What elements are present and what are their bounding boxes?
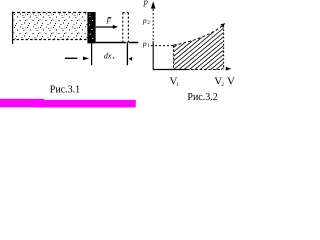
magenta highlight bar left: [0, 99, 44, 108]
svg-text:2: 2: [221, 82, 224, 88]
cylinder bottom dotted wall: [12, 39, 88, 41]
svg-text:p: p: [142, 16, 147, 25]
piston displaced position (dashed): [123, 13, 129, 43]
svg-text:V: V: [227, 75, 235, 87]
right dim arrowhead: [129, 57, 133, 61]
force arrow F: [96, 26, 114, 28]
svg-text:dx: dx: [104, 52, 112, 61]
dashed V1 vertical: [173, 46, 175, 70]
left dim arrowhead: [83, 57, 89, 61]
gas stipple fill: [14, 14, 88, 39]
volume axis arrowhead: [226, 67, 232, 71]
volume axis: [153, 69, 186, 71]
svg-text:p: p: [142, 39, 147, 48]
curve arrowhead: [221, 23, 226, 27]
piston (black bar): [87, 12, 95, 43]
svg-text:F: F: [105, 18, 111, 26]
pressure axis (solid top, faded middle, solid bottom): [152, 3, 154, 10]
cylinder top dotted wall: [12, 12, 88, 14]
dashed V2 vertical: [223, 26, 225, 70]
dimension extension line right: [126, 43, 128, 65]
cylinder closed end (left wall): [12, 12, 14, 44]
pressure axis arrowhead: [151, 1, 156, 8]
svg-text:Рис.3.2: Рис.3.2: [187, 92, 217, 103]
displacement arrow shaft: [65, 57, 77, 59]
hatched work area: [141, 25, 275, 70]
magenta highlight bar right: [44, 100, 136, 108]
svg-text:Рис.3.1: Рис.3.1: [50, 84, 80, 95]
cylinder bottom wall extension: [96, 42, 139, 44]
svg-text:1: 1: [176, 82, 179, 88]
process curve (dashed): [174, 26, 223, 45]
dashed p1 level line: [151, 45, 174, 47]
dimension extension line left: [91, 44, 93, 66]
svg-text:p: p: [143, 0, 148, 7]
